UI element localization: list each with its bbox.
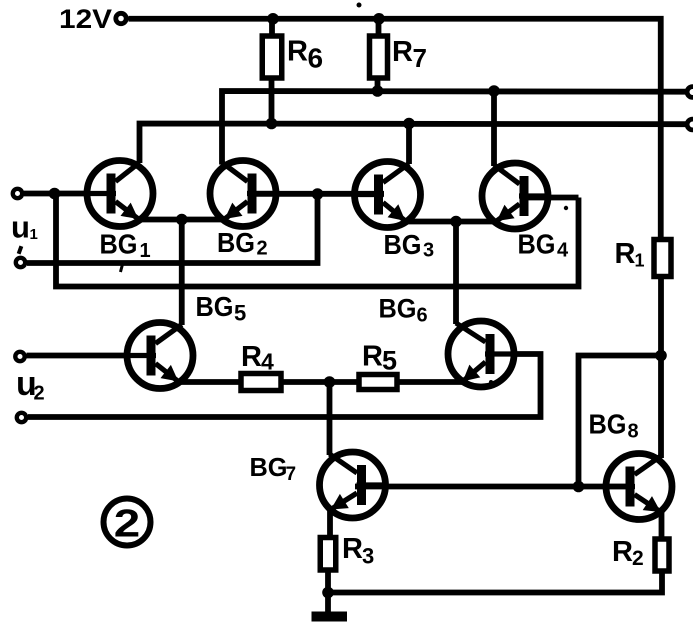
svg-text:7: 7 bbox=[413, 43, 427, 73]
svg-text:R: R bbox=[615, 238, 636, 270]
svg-text:BG: BG bbox=[250, 452, 288, 482]
svg-text:6: 6 bbox=[308, 43, 324, 74]
svg-text:BG: BG bbox=[379, 294, 417, 324]
svg-text:2: 2 bbox=[114, 502, 140, 545]
svg-text:8: 8 bbox=[628, 421, 639, 443]
svg-text:6: 6 bbox=[417, 305, 428, 327]
svg-text:R: R bbox=[362, 341, 383, 373]
svg-text:1: 1 bbox=[30, 226, 38, 243]
svg-text:5: 5 bbox=[382, 346, 397, 376]
svg-text:3: 3 bbox=[423, 240, 434, 262]
svg-text:R: R bbox=[241, 341, 262, 373]
svg-text:2: 2 bbox=[632, 547, 644, 570]
svg-text:BG: BG bbox=[518, 229, 556, 260]
svg-text:7: 7 bbox=[286, 464, 297, 485]
svg-text:R: R bbox=[342, 533, 363, 565]
svg-text:3: 3 bbox=[362, 544, 374, 569]
svg-text:BG: BG bbox=[196, 291, 234, 322]
svg-text:BG: BG bbox=[384, 229, 422, 260]
svg-text:1: 1 bbox=[140, 240, 151, 262]
svg-text:u: u bbox=[11, 210, 30, 245]
svg-text:BG: BG bbox=[100, 229, 138, 260]
svg-text:R: R bbox=[392, 36, 413, 68]
svg-text:2: 2 bbox=[34, 383, 45, 405]
svg-text:1: 1 bbox=[635, 251, 645, 271]
svg-text:4: 4 bbox=[557, 240, 569, 262]
svg-text:12V: 12V bbox=[59, 4, 112, 34]
svg-text:5: 5 bbox=[234, 301, 246, 326]
svg-text:4: 4 bbox=[261, 349, 274, 375]
svg-text:2: 2 bbox=[257, 238, 268, 260]
svg-text:R: R bbox=[287, 36, 308, 68]
svg-text:BG: BG bbox=[589, 409, 627, 440]
svg-text:BG: BG bbox=[217, 227, 255, 258]
svg-text:R: R bbox=[612, 536, 633, 568]
